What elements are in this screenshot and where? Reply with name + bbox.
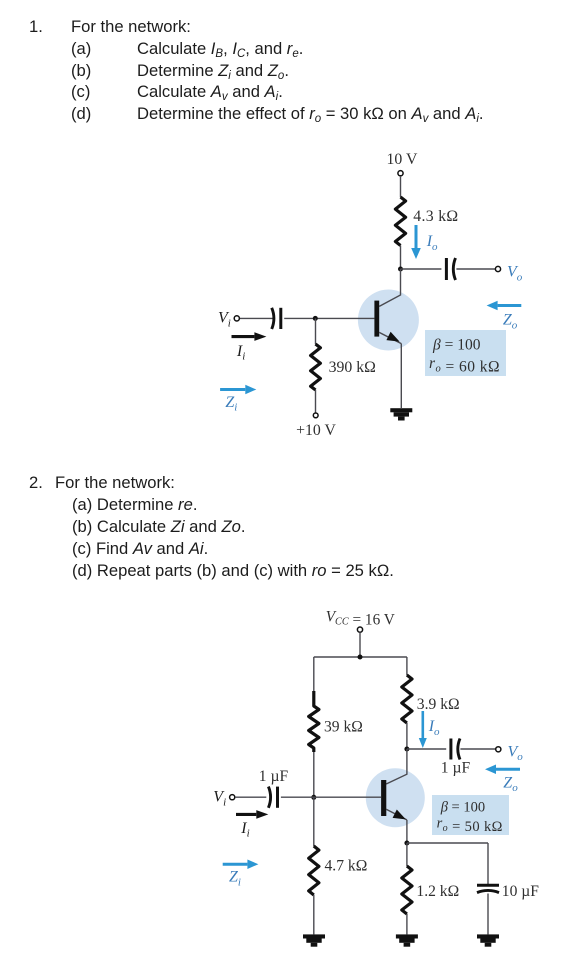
svg-text:1.2 kΩ: 1.2 kΩ [416,883,459,900]
svg-text:Vo: Vo [508,743,524,763]
svg-text:4.7 kΩ: 4.7 kΩ [325,858,368,875]
svg-text:β = 100: β = 100 [432,337,481,354]
svg-text:10 V: 10 V [387,151,418,168]
svg-text:Ii: Ii [236,343,245,363]
svg-text:VCC = 16 V: VCC = 16 V [326,608,395,628]
svg-text:Vi: Vi [218,310,231,330]
svg-text:Zi: Zi [229,869,241,889]
svg-text:Io: Io [426,233,438,253]
svg-text:Zi: Zi [225,394,237,414]
svg-text:Zo: Zo [503,312,518,332]
svg-text:Vi: Vi [213,789,226,809]
svg-text:4.3 kΩ: 4.3 kΩ [413,208,458,225]
svg-text:Zo: Zo [503,774,518,794]
svg-text:Vo: Vo [507,264,523,284]
svg-text:Ii: Ii [240,820,249,840]
svg-text:1 µF: 1 µF [441,760,471,777]
svg-text:1 µF: 1 µF [259,768,289,785]
svg-text:β = 100: β = 100 [440,800,485,816]
svg-text:+10 V: +10 V [296,422,336,439]
svg-text:Io: Io [428,718,440,738]
svg-text:3.9 kΩ: 3.9 kΩ [417,696,460,713]
svg-text:39 kΩ: 39 kΩ [324,719,363,736]
svg-text:390 kΩ: 390 kΩ [329,359,376,376]
svg-text:10 µF: 10 µF [502,883,539,900]
